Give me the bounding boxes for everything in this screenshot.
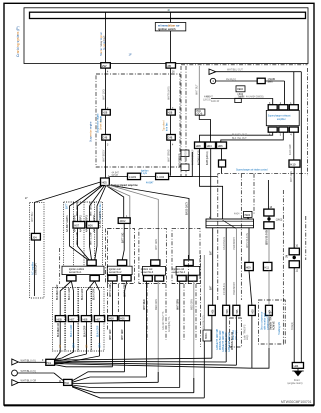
wire in dotted box	[33, 202, 35, 233]
ignition coil box under bar	[155, 23, 186, 31]
svg-text:CABLE/TB GRP WH: CABLE/TB GRP WH	[222, 331, 225, 352]
svg-text:H24: H24	[294, 364, 299, 368]
svg-text:BLK/C GRP: BLK/C GRP	[69, 287, 71, 300]
svg-text:H0B: H0B	[57, 317, 62, 321]
small box mid-bottom with rotated text	[203, 330, 211, 341]
svg-text:Snow compressor: Snow compressor	[261, 311, 264, 330]
connector boxes on x105.5	[102, 110, 111, 116]
svg-text:inputs: inputs	[100, 115, 103, 122]
bottom-left connector triangle 2	[12, 380, 18, 386]
H2N feed wire	[203, 255, 205, 341]
svg-text:WHT/C GRP: WHT/C GRP	[90, 231, 92, 245]
svg-text:H07: H07	[74, 224, 79, 228]
svg-text:Ignition coil: Ignition coil	[141, 268, 153, 271]
svg-text:BLK/YEL OUT: BLK/YEL OUT	[232, 135, 247, 137]
svg-text:WHT/C GRP: WHT/C GRP	[110, 283, 112, 297]
svg-text:sensor No.4: sensor No.4	[173, 271, 186, 274]
svg-text:WHTR (W/O): WHTR (W/O)	[168, 86, 170, 100]
wire x170.5 down	[170, 68, 172, 176]
svg-text:MOT GRN: MOT GRN	[291, 171, 293, 182]
wires through H07/H06 (see fan polylines)	[77, 201, 79, 216]
svg-text:CAL/AN TRA/TTS: CAL/AN TRA/TTS	[162, 311, 165, 330]
svg-text:amplifier: amplifier	[277, 118, 286, 121]
svg-text:BAT: BAT	[210, 285, 213, 290]
svg-text:Variable TRAJ/TS: Variable TRAJ/TS	[270, 311, 273, 330]
svg-text:H10: H10	[290, 163, 296, 167]
connector 2B on box bottom	[166, 63, 176, 68]
connector boxes on x170.5	[167, 110, 176, 116]
svg-text:H02: H02	[64, 382, 69, 385]
svg-text:Supercharger exhaust: Supercharger exhaust	[268, 115, 291, 118]
svg-text:CABLE/TB GRP WH: CABLE/TB GRP WH	[216, 329, 219, 350]
svg-text:WHT OUT: WHT OUT	[196, 84, 198, 95]
svg-text:GR4: GR4	[99, 343, 101, 348]
labels above right columns	[210, 285, 213, 290]
svg-text:4F02: 4F02	[120, 219, 126, 223]
svg-text:WHT GROUP: WHT GROUP	[77, 201, 79, 216]
svg-text:WHT GRND: WHT GRND	[168, 149, 170, 162]
ground wire and H24	[292, 363, 303, 369]
svg-text:4A66 (L/K19): 4A66 (L/K19)	[206, 151, 209, 165]
svg-text:WHT/RED: WHT/RED	[144, 299, 146, 310]
svg-text:H06: H06	[218, 144, 223, 148]
svg-text:WHT/BLU: WHT/BLU	[32, 211, 34, 222]
coil connector row boxes	[55, 316, 65, 322]
ground symbol	[294, 371, 303, 376]
box H04 left mid	[195, 109, 205, 115]
right capacitor stack (x294)	[293, 167, 295, 249]
svg-text:2/04 BLK/G: 2/04 BLK/G	[224, 283, 226, 295]
svg-text:(JC4): (JC4)	[238, 94, 244, 96]
wires below sensor2 boxes	[112, 321, 114, 367]
svg-text:BASS GAZY: BASS GAZY	[186, 202, 189, 215]
sensor 2 lower boxes	[112, 281, 114, 316]
wire from circle through box	[216, 80, 285, 82]
wires from bar bottom	[212, 228, 214, 305]
svg-text:WHT/A GRP: WHT/A GRP	[123, 284, 126, 297]
svg-text:Top wheel: Top wheel	[164, 120, 166, 131]
svg-text:Cranking system (P): Cranking system (P)	[16, 26, 20, 57]
svg-text:(L/K19): (L/K19)	[203, 100, 211, 102]
svg-text:WHT GRP: WHT GRP	[110, 329, 112, 340]
svg-text:MED/GRN: MED/GRN	[192, 299, 194, 310]
svg-text:1 MAIN: 1 MAIN	[268, 78, 276, 81]
bottom-left connector triangle 1	[12, 359, 18, 365]
wire: bus to connector 2W	[105, 19, 107, 64]
svg-text:WHT2 PLK/YE: WHT2 PLK/YE	[247, 232, 249, 248]
small boxes left edge of group	[181, 150, 189, 157]
svg-text:BLKA GRP: BLKA GRP	[93, 288, 96, 300]
connector 4F04	[118, 218, 130, 224]
svg-text:Ignition coil: Ignition coil	[109, 268, 121, 271]
box RE04	[236, 86, 245, 92]
svg-text:304n(2): 304n(2)	[292, 322, 294, 330]
svg-text:H0B: H0B	[226, 309, 229, 314]
svg-text:sensor No.2: sensor No.2	[109, 271, 122, 274]
H09 connector	[245, 262, 254, 270]
right columns: vertical connector boxes row	[208, 305, 215, 315]
svg-text:1M: 1M	[287, 255, 289, 258]
svg-text:Ignition coil/ion: Ignition coil/ion	[69, 268, 85, 271]
sensor 4	[173, 260, 200, 281]
svg-text:control (2P): control (2P)	[34, 263, 37, 275]
svg-text:H09: H09	[246, 265, 251, 269]
svg-text:4A784 GROUP: 4A784 GROUP	[191, 149, 194, 165]
wires into amplifier top	[211, 99, 273, 105]
svg-text:WHT GROUP: WHT GROUP	[90, 201, 92, 216]
svg-text:H06: H06	[88, 224, 93, 228]
svg-text:GR4: GR4	[73, 343, 75, 348]
connector triangle M	[209, 69, 216, 74]
small box above bar right	[244, 211, 253, 217]
svg-text:BLK/RED GR: BLK/RED GR	[58, 323, 60, 337]
svg-text:ZZLD BLK/G: ZZLD BLK/G	[224, 237, 226, 250]
svg-text:4A04: 4A04	[234, 213, 240, 216]
wires below sensor1	[71, 281, 73, 316]
svg-text:BLK YEL OUT: BLK YEL OUT	[232, 138, 247, 140]
svg-text:Suspension engine: Suspension engine	[98, 113, 100, 133]
svg-text:H07: H07	[96, 317, 101, 321]
svg-text:4A784 OUT: 4A784 OUT	[185, 149, 188, 162]
labels below sensor1	[57, 284, 59, 300]
svg-text:4A B47: 4A B47	[146, 182, 154, 185]
sensor 1: ignition coil no.1	[62, 260, 104, 281]
svg-text:amp): amp)	[247, 335, 249, 340]
svg-text:H2N DOUT(T): H2N DOUT(T)	[204, 315, 206, 330]
connector J04	[31, 233, 40, 240]
svg-text:H04: H04	[207, 144, 212, 148]
connector on wire x221.5	[219, 160, 226, 167]
dotted lanes coil column	[52, 288, 64, 352]
svg-text:BLKA GRP: BLKA GRP	[83, 325, 86, 337]
dash-dot boundary right of amplifier	[307, 68, 309, 176]
svg-text:4 cyls: 4 cyls	[141, 173, 148, 175]
svg-text:OWD MODY: OWD MODY	[234, 281, 236, 295]
svg-text:J04: J04	[32, 236, 37, 240]
svg-text:4A04 GRP: 4A04 GRP	[289, 144, 292, 155]
svg-text:BLK/RED GRP: BLK/RED GRP	[57, 284, 59, 300]
circle connector	[210, 78, 215, 83]
supercharger amplifier block U1	[268, 105, 277, 110]
horizontal run right from junction	[109, 176, 192, 178]
svg-text:WHT GRN: WHT GRN	[156, 239, 158, 250]
svg-text:H0B: H0B	[252, 309, 255, 314]
connector row boxes (3) under amplifier	[195, 142, 205, 149]
svg-text:1 C02: 1 C02	[157, 175, 164, 179]
svg-text:C4B: C4B	[103, 138, 108, 140]
wires from right columns down to fan turns	[211, 316, 213, 359]
sensor 2	[107, 260, 132, 281]
svg-text:ROM/VE BLK GRP: ROM/VE BLK GRP	[220, 330, 222, 350]
dash-dot boundaries between sensors	[59, 248, 61, 284]
svg-text:WHT2 PLCYR: WHT2 PLCYR	[267, 230, 269, 245]
svg-text:WHT GRP: WHT GRP	[122, 329, 124, 340]
svg-text:BATT SIG: BATT SIG	[122, 233, 125, 243]
svg-text:4A04 W: 4A04 W	[211, 100, 220, 103]
svg-text:ACAN(VE) TTL: ACAN(VE) TTL	[168, 316, 171, 332]
label WHT (2/O)	[103, 89, 105, 100]
svg-text:GR: GR	[60, 344, 62, 348]
svg-text:in in line: in in line	[166, 122, 168, 131]
dash-dot boundaries right zone	[200, 255, 202, 347]
svg-text:H2B: H2B	[103, 113, 108, 115]
svg-text:4A B47 GRP1: 4A B47 GRP1	[65, 215, 69, 232]
svg-text:MTWG0CMF100701: MTWG0CMF100701	[281, 400, 312, 404]
svg-text:MED/GRN: MED/GRN	[156, 299, 158, 310]
svg-text:H07: H07	[70, 317, 75, 321]
dash-dot harness box left	[96, 74, 180, 167]
svg-text:A/C amplifier: A/C amplifier	[32, 262, 35, 275]
svg-text:CWD MODY: CWD MODY	[234, 237, 236, 250]
bus bar (fuse strip)	[30, 12, 306, 18]
svg-text:H2N 1: H2N 1	[206, 332, 208, 339]
wires below sensors 3,4	[146, 281, 148, 377]
svg-text:WHT/GRN: WHT/GRN	[177, 299, 179, 310]
svg-text:RE04: RE04	[237, 89, 243, 91]
svg-text:CABLE/TB GRP W: CABLE/TB GRP W	[228, 332, 231, 352]
svg-text:BLKA GRP: BLKA GRP	[81, 288, 84, 300]
svg-text:4 H03: 4 H03	[129, 175, 136, 179]
svg-text:with monitor and: with monitor and	[264, 312, 267, 330]
blue label left of dashed box	[90, 121, 93, 142]
junction connector H05	[101, 178, 110, 186]
dashed component box top right (supercharger assy)	[218, 174, 308, 300]
fan lines from junction	[34, 182, 100, 202]
svg-text:1F: 1F	[129, 53, 133, 57]
svg-text:4J: 4J	[168, 10, 170, 12]
svg-text:WHT (2/O): WHT (2/O)	[103, 89, 105, 100]
connector box 1M08	[257, 78, 265, 83]
svg-text:Supercharger air intake contro: Supercharger air intake control	[236, 169, 268, 172]
svg-text:4A04 GROUP: 4A04 GROUP	[178, 153, 181, 168]
svg-text:4A (4A04 5/W05): 4A (4A04 5/W05)	[246, 96, 264, 99]
wire x105.5 down	[105, 68, 107, 178]
connector boxes H07 H06 mid-left	[73, 222, 85, 229]
svg-text:Ignition coil: Ignition coil	[173, 268, 185, 271]
H11 connector right of H09	[263, 262, 272, 270]
dense blue note column	[216, 329, 219, 350]
label: Cranking system (P) vertical left margin	[16, 26, 20, 57]
svg-text:H05: H05	[236, 309, 239, 314]
fan from H01 to right columns	[55, 358, 212, 360]
svg-text:Identity(c): Identity(c)	[226, 78, 236, 81]
dashed box bottom-right	[258, 300, 285, 344]
svg-text:(with TPMS/FS: (with TPMS/FS	[243, 324, 246, 340]
svg-text:BATT: BATT	[65, 203, 68, 209]
svg-text:H05: H05	[102, 181, 108, 185]
svg-text:Tracking GN: Tracking GN	[278, 322, 281, 335]
svg-text:ACM/VE: ACM/VE	[273, 321, 276, 330]
relay block box (top)	[24, 8, 308, 64]
svg-text:WHT/C GRP: WHT/C GRP	[77, 231, 79, 245]
svg-text:sensor No.1: sensor No.1	[69, 271, 82, 274]
svg-text:4A784 (L/K19): 4A784 (L/K19)	[197, 150, 200, 165]
svg-text:WH2P: WH2P	[112, 175, 119, 177]
connector H02	[64, 379, 73, 385]
wire: bar to ignition box to 2B	[170, 19, 172, 23]
svg-text:BAT: BAT	[210, 250, 213, 255]
svg-text:(2C4): (2C4)	[197, 113, 203, 115]
svg-text:sensor No.3: sensor No.3	[141, 271, 154, 274]
svg-text:SW6: SW6	[268, 82, 274, 84]
bottom-left circle connector	[12, 370, 18, 376]
dashed box bottom-mid-right	[230, 318, 242, 347]
labels beside wire	[98, 113, 100, 133]
svg-text:(1N-2): (1N-2)	[276, 220, 283, 222]
svg-text:Ignition: Ignition	[141, 169, 149, 172]
svg-text:2W: 2W	[102, 64, 107, 68]
svg-text:H2B: H2B	[168, 113, 173, 115]
connector H01	[46, 359, 55, 365]
svg-text:WHT/BODY: WHT/BODY	[103, 149, 105, 162]
wire from triangle	[216, 71, 301, 73]
svg-text:H08: H08	[196, 144, 201, 148]
svg-text:BLK/C GRP: BLK/C GRP	[71, 324, 73, 337]
svg-text:H08: H08	[83, 317, 88, 321]
connector boxes on horizontal run	[128, 173, 141, 179]
svg-text:C4B: C4B	[168, 138, 173, 140]
svg-text:GR: GR	[86, 344, 88, 348]
svg-text:H06: H06	[212, 309, 215, 314]
fan from H02 to nested turns	[55, 365, 113, 367]
svg-text:H05: H05	[120, 318, 125, 321]
svg-text:(engine room): (engine room)	[288, 382, 303, 385]
left dotted harness box	[30, 202, 44, 298]
svg-text:WHT/BLU OUT: WHT/BLU OUT	[227, 70, 243, 72]
svg-text:H01: H01	[47, 362, 52, 365]
svg-text:ignition switch: ignition switch	[158, 28, 176, 31]
connector 2W on box bottom	[101, 63, 111, 68]
svg-text:ROM/VE BLK GR: ROM/VE BLK GR	[232, 332, 234, 350]
dotted harness lanes (funnel)	[63, 202, 65, 272]
svg-text:4A04T: 4A04T	[206, 96, 213, 99]
wire H2N to H02 bundle	[203, 341, 205, 398]
svg-text:PE04: PE04	[245, 215, 251, 217]
svg-text:BLKA GRP: BLKA GRP	[96, 325, 99, 337]
joint stack component (x269)	[267, 180, 269, 209]
svg-text:2B: 2B	[167, 64, 171, 68]
coil row wires joining H01	[55, 350, 61, 360]
svg-text:H11: H11	[264, 265, 269, 269]
svg-text:Suspension engine: Suspension engine	[90, 121, 93, 142]
wires/labels below coil row	[59, 322, 61, 350]
wires below 3 boxes	[200, 149, 223, 221]
svg-text:H08: H08	[109, 318, 114, 321]
right vertical wire from amp to H10	[289, 160, 300, 167]
wires from amplifier bottom	[200, 132, 273, 142]
sensor 3	[141, 260, 166, 281]
joint connector bar mid-right	[206, 219, 254, 228]
label: starter relay vertical inside box	[99, 32, 103, 56]
dash-dot boundary right group	[180, 66, 182, 176]
